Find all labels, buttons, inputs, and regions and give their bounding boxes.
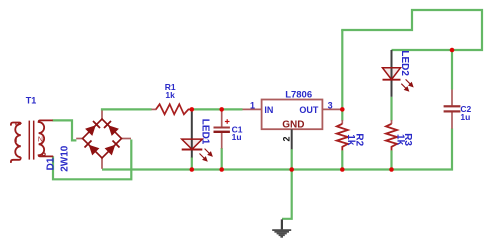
svg-text:T1: T1 (26, 96, 37, 106)
svg-text:1k: 1k (165, 90, 175, 100)
svg-text:1u: 1u (460, 112, 470, 122)
svg-text:1k: 1k (395, 134, 406, 146)
svg-text:GND: GND (282, 120, 304, 131)
svg-text:IN: IN (264, 105, 273, 115)
svg-text:LED2: LED2 (399, 50, 410, 76)
svg-text:OUT: OUT (299, 105, 319, 115)
svg-text:1k: 1k (345, 134, 356, 146)
svg-text:1u: 1u (232, 132, 242, 142)
svg-text:D1: D1 (45, 157, 56, 170)
svg-text:1: 1 (250, 101, 255, 111)
svg-text:2W10: 2W10 (60, 145, 71, 172)
svg-text:3: 3 (328, 101, 333, 111)
svg-text:I: I (16, 137, 18, 144)
svg-text:2: 2 (282, 136, 292, 141)
svg-text:LED1: LED1 (199, 119, 210, 145)
svg-text:N: N (38, 137, 43, 144)
svg-text:L7806: L7806 (285, 89, 312, 100)
